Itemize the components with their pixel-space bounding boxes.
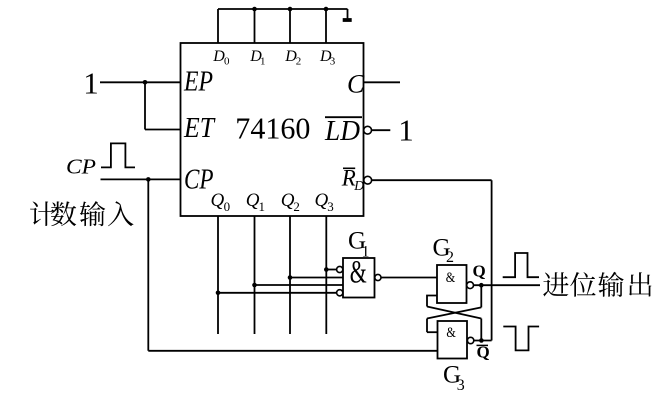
svg-text:3: 3 bbox=[457, 377, 465, 394]
svg-text:2: 2 bbox=[446, 249, 454, 266]
svg-text:2: 2 bbox=[296, 55, 302, 67]
svg-text:0: 0 bbox=[224, 55, 230, 67]
svg-text:1: 1 bbox=[259, 199, 266, 214]
svg-text:1: 1 bbox=[398, 112, 414, 147]
svg-text:ET: ET bbox=[183, 112, 216, 144]
svg-text:Q: Q bbox=[477, 343, 490, 362]
svg-text:CP: CP bbox=[66, 154, 96, 178]
svg-text:1: 1 bbox=[260, 55, 266, 67]
svg-text:&: & bbox=[446, 325, 456, 341]
svg-text:&: & bbox=[446, 270, 456, 286]
svg-text:EP: EP bbox=[183, 65, 213, 97]
svg-text:3: 3 bbox=[327, 199, 334, 214]
svg-text:2: 2 bbox=[293, 199, 300, 214]
svg-text:C: C bbox=[347, 70, 365, 99]
svg-text:D: D bbox=[353, 178, 364, 193]
svg-text:1: 1 bbox=[83, 65, 99, 100]
svg-text:3: 3 bbox=[330, 55, 336, 67]
svg-text:Q: Q bbox=[473, 261, 486, 280]
svg-text:Q: Q bbox=[211, 190, 225, 211]
svg-text:74160: 74160 bbox=[235, 112, 310, 146]
svg-text:LD: LD bbox=[324, 115, 360, 147]
svg-text:CP: CP bbox=[184, 163, 214, 195]
svg-text:0: 0 bbox=[224, 199, 231, 214]
svg-text:&: & bbox=[350, 255, 367, 291]
